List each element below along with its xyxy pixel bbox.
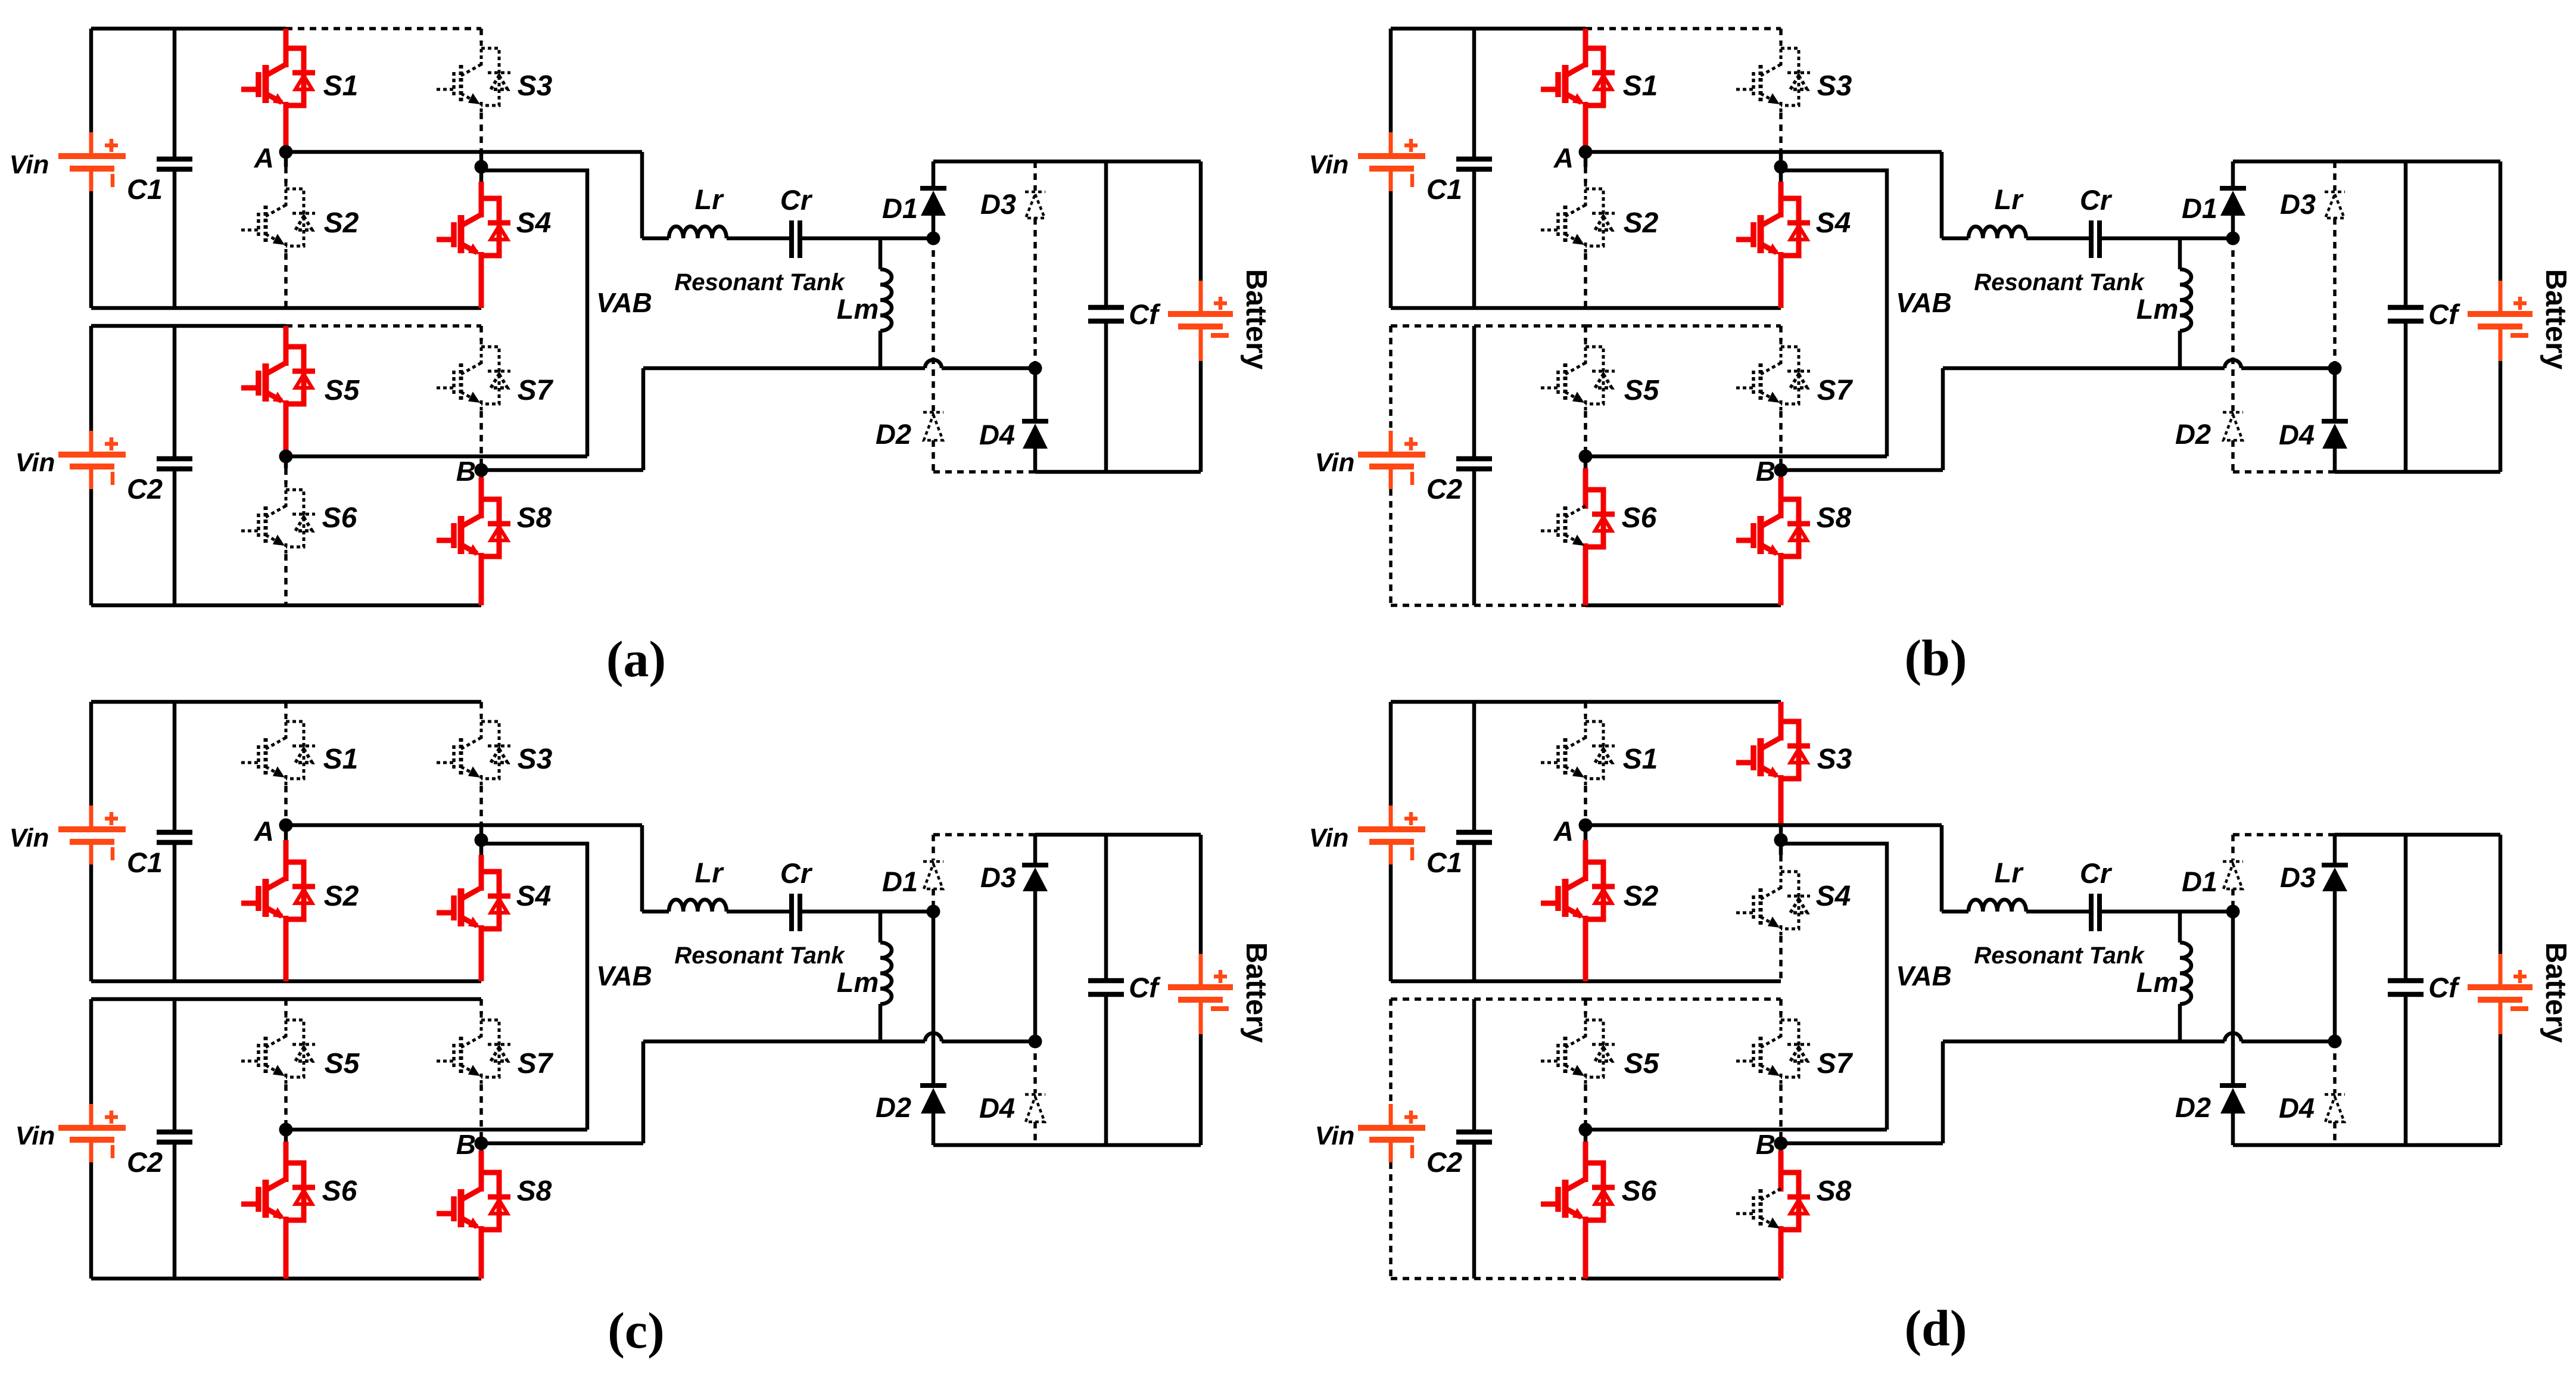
svg-text:S7: S7 [1817,1048,1854,1080]
wire top rail left segment (c) [91,700,286,704]
wire S4 to bottom rail (b) [1778,263,1784,308]
wire battery branch lower (b) [2499,361,2503,472]
wire C2 branch upper (c) [173,999,177,1132]
transistor S7 (IGBT switch) (d) [1780,1014,1783,1039]
svg-text:S2: S2 [324,207,359,239]
node D1-D2 midpoint (a) [927,232,940,245]
transistor S2 (IGBT switch) (b) [1584,183,1587,208]
wire Cf branch lower (d) [2404,994,2408,1145]
svg-text:Lm: Lm [837,966,879,998]
node A (c) [279,819,293,832]
capacitor Cr (b) [2089,220,2094,258]
svg-text:Vin: Vin [1315,448,1355,477]
wire S1 to node A (d) [1584,786,1587,825]
wire hop over D2 branch (a) [925,360,942,368]
svg-text:Resonant Tank: Resonant Tank [674,269,845,296]
wire S8 upper lead (a) [479,477,484,493]
wire mid node to VAB rail (d) [1586,1128,1887,1132]
svg-text:D2: D2 [2175,1091,2211,1123]
wire rectifier top rail left (a) [933,160,1035,164]
transistor S4 (IGBT switch) (c) [479,866,484,891]
wire S8 to bottom rail (b) [1778,564,1784,605]
wire Lr to Cr (a) [727,237,790,241]
svg-text:C2: C2 [1426,1146,1462,1178]
wire S6 to bottom rail (a) [284,554,288,605]
battery Vin upper (c) [89,805,94,829]
wire top rail right segment (d) [1586,700,1781,704]
node A (d) [1579,819,1593,832]
svg-text:Vin: Vin [1309,823,1349,853]
capacitor C2 (d) [1456,1130,1492,1135]
wire S2 upper lead (c) [284,840,289,856]
wire C2 branch upper (a) [173,326,177,459]
wire S1 drop (b) [1583,29,1588,42]
svg-text:S8: S8 [517,1175,552,1207]
wire node B to tank (horizontal) (d) [1781,1142,1943,1146]
svg-text:D4: D4 [2279,419,2315,450]
inductor Lm (b) [2180,269,2191,331]
wire mid node stub down (d) [1584,1130,1588,1142]
node D3-D4 midpoint (a) [1029,362,1042,375]
svg-text:S6: S6 [322,1175,357,1207]
svg-text:S8: S8 [517,502,552,534]
wire C1 branch upper (b) [1472,29,1477,159]
wire S3 to junction (b) [1779,113,1783,152]
wire mid node to VAB rail (a) [286,455,587,459]
wire tank bottom line left (b) [1943,366,2225,371]
wire lower top rail right segment (d) [1586,997,1781,1001]
wire node A stub down (c) [284,825,288,840]
transistor S1 (IGBT switch) (c) [285,716,288,741]
wire node A to tank (horizontal) (c) [286,823,642,828]
transistor S5 (IGBT switch) (d) [1584,1014,1587,1039]
svg-text:B: B [456,1129,476,1160]
transistor S5 (IGBT switch) (a) [284,341,289,366]
svg-text:D1: D1 [2182,192,2217,224]
svg-text:VAB: VAB [1896,960,1952,991]
wire top rail left segment (d) [1391,700,1586,704]
diode D1 (a) [932,161,936,188]
wire node B to tank (horizontal) (b) [1781,468,1943,472]
wire lower top rail left segment (b) [1391,324,1586,328]
battery Vin lower (b) [1389,431,1393,455]
diode D3 (b) [2333,161,2337,191]
wire battery branch upper (b) [2499,161,2503,281]
wire battery branch lower (a) [1199,361,1203,472]
wire junction to VAB rail (c) [481,844,587,1130]
inductor Lm (a) [880,269,892,331]
transistor S1 (IGBT switch) (d) [1584,716,1587,741]
svg-text:B: B [1756,456,1776,487]
wire tank top line to Lr (c) [642,910,669,914]
wire junction to VAB rail (b) [1781,170,1887,456]
wire S3-S4 junction stub (b) [1779,152,1783,182]
wire S7 to node B (c) [479,1084,483,1143]
wire node A to tank (step down) (d) [1940,825,1944,912]
wire S4 to bottom rail (c) [479,936,484,981]
wire top rail right segment (a) [286,27,481,30]
battery output Battery (a) [1199,281,1203,314]
wire S5 drop (d) [1584,999,1587,1014]
wire S4 upper lead (d) [1779,855,1783,866]
svg-text:D4: D4 [979,1092,1015,1124]
wire node B to tank (horizontal) (c) [481,1142,643,1146]
wire S6 upper lead (c) [284,1142,289,1157]
wire Lr to Cr (c) [727,910,790,914]
diode D2 (d) [2231,912,2235,1086]
battery Vin upper (b) [1389,132,1393,156]
svg-text:VAB: VAB [596,960,652,991]
wire S2 to bottom rail (b) [1584,253,1587,308]
node D1-D2 midpoint (d) [2226,905,2240,919]
node S5-S6 midpoint (a) [279,450,293,464]
wire top rail left segment (b) [1391,27,1586,31]
wire Lm upper lead (a) [879,238,883,269]
node S5-S6 midpoint (b) [1579,450,1593,464]
svg-text:Cr: Cr [780,184,813,216]
wire battery branch upper (a) [1199,161,1203,281]
diode D4 (c) [1033,1041,1037,1093]
svg-text:S2: S2 [324,881,359,912]
transistor S3 (IGBT switch) (d) [1778,716,1784,741]
svg-text:S4: S4 [1816,881,1851,912]
svg-text:S7: S7 [1817,375,1854,406]
wire S3-S4 junction stub (d) [1779,825,1783,855]
wire top rail right segment (c) [286,700,481,704]
svg-text:B: B [456,456,476,487]
wire S6 to bottom rail (d) [1583,1227,1588,1279]
wire S1 drop (a) [284,29,289,42]
svg-text:Battery: Battery [2540,269,2572,370]
wire rectifier bottom rail right (b) [2335,470,2500,474]
wire lower left rail (below Vin) (c) [89,1162,94,1279]
transistor S3 (IGBT switch) (c) [480,716,483,741]
wire rectifier top rail right (d) [2335,833,2500,837]
wire S1 drop (d) [1584,702,1587,716]
svg-text:Vin: Vin [15,1121,55,1150]
svg-text:C1: C1 [127,847,163,878]
wire rectifier top rail left (d) [2233,833,2335,836]
wire lower left rail (below Vin) (d) [1389,1162,1393,1279]
svg-text:D3: D3 [980,861,1016,893]
transistor S8 (IGBT switch) (d) [1778,1167,1784,1192]
wire S2 to bottom rail (c) [284,926,289,981]
svg-text:C1: C1 [1426,173,1462,205]
battery output Battery (b) [2499,281,2503,314]
inductor Lr (c) [669,900,727,912]
wire tank bottom line left (a) [643,366,925,371]
wire S6 upper lead (a) [284,468,288,484]
battery Vin lower (c) [89,1104,94,1128]
wire lower top rail right segment (c) [286,997,481,1002]
wire tank bottom line right (d) [2241,1040,2335,1044]
wire node A stub down (d) [1584,825,1588,840]
wire S5 to mid node (c) [284,1084,288,1130]
wire node B to tank (step up) (c) [641,1041,646,1143]
wire node A to tank (step down) (c) [640,825,644,912]
wire C1 branch lower (a) [173,169,177,308]
diode D1 (c) [932,835,935,860]
wire mid node to VAB rail (c) [286,1128,587,1132]
wire lower top rail left segment (a) [91,324,286,328]
capacitor Cf (b) [2388,305,2424,310]
transistor S7 (IGBT switch) (b) [1780,341,1783,366]
svg-text:S8: S8 [1817,502,1852,534]
svg-text:Resonant Tank: Resonant Tank [1974,269,2145,296]
node B (d) [1774,1137,1788,1150]
wire S4 upper lead (c) [479,855,484,866]
node A (a) [279,145,293,159]
wire left rail upper (below Vin) (c) [89,864,94,981]
svg-text:Cf: Cf [2428,972,2460,1003]
svg-text:S4: S4 [516,207,552,239]
wire S5 to mid node (a) [284,411,289,456]
transistor S4 (IGBT switch) (d) [1780,866,1783,891]
wire bottom rail upper bridge (b) [1391,306,1781,310]
wire left rail upper (above Vin) (b) [1389,29,1393,132]
svg-text:S6: S6 [1622,502,1657,534]
wire S7 drop (c) [479,999,483,1014]
wire rectifier top rail left (b) [2233,160,2335,164]
battery output Battery (d) [2499,954,2503,987]
node S3-S4 junction (a) [475,160,488,174]
wire node B stub down (a) [479,470,484,477]
battery Vin upper (a) [89,132,94,156]
capacitor Cr (c) [789,894,794,931]
wire node A to tank (horizontal) (b) [1586,150,1942,154]
wire tank top line to Lr (b) [1942,237,1968,241]
transistor S6 (IGBT switch) (b) [1583,484,1588,509]
svg-text:A: A [1553,816,1574,847]
svg-text:C2: C2 [1426,473,1462,505]
wire rectifier bottom rail right (c) [1035,1143,1201,1147]
svg-text:Vin: Vin [1309,150,1349,179]
svg-text:D1: D1 [882,866,918,897]
transistor S1 (IGBT switch) (a) [284,42,289,67]
wire top rail right segment (b) [1586,27,1781,30]
wire Cr to rectifier (a) [801,237,933,241]
wire rectifier top rail right (b) [2335,160,2500,164]
wire S2 upper lead (a) [284,167,288,183]
transistor S7 (IGBT switch) (a) [480,341,483,366]
svg-text:S6: S6 [1622,1175,1657,1207]
node B (a) [475,464,488,477]
diode D1 (d) [2231,835,2235,860]
svg-text:S6: S6 [322,502,357,534]
svg-text:D3: D3 [2280,861,2316,893]
wire top rail left segment (a) [91,27,286,31]
wire C2 branch lower (c) [173,1142,177,1279]
wire S8 upper lead (b) [1778,477,1784,493]
wire S8 upper lead (d) [1778,1150,1784,1167]
svg-text:Lm: Lm [2136,293,2179,325]
wire node A to tank (horizontal) (a) [286,150,642,154]
wire S2 upper lead (b) [1584,167,1587,183]
svg-text:D3: D3 [980,188,1016,220]
wire S6 to bottom rail (b) [1583,554,1588,605]
wire tank top line to Lr (a) [642,237,669,241]
inductor Lr (d) [1968,900,2026,912]
svg-text:Battery: Battery [2540,943,2572,1043]
svg-text:(d): (d) [1904,1299,1967,1357]
wire S2 to bottom rail (a) [284,253,288,308]
wire S2 to bottom rail (d) [1583,926,1588,981]
svg-text:A: A [1553,142,1574,173]
svg-text:Cr: Cr [2080,184,2113,216]
svg-text:D1: D1 [882,192,918,224]
wire hop over D2 branch (c) [925,1033,942,1041]
wire S8 to bottom rail (a) [479,564,484,605]
wire C2 branch lower (d) [1472,1142,1477,1279]
wire lower top rail left segment (c) [91,997,286,1002]
wire C2 branch lower (b) [1472,469,1477,605]
diode D3 (a) [1033,161,1037,191]
transistor S4 (IGBT switch) (a) [479,192,484,217]
svg-text:S8: S8 [1817,1175,1852,1207]
wire battery branch upper (c) [1199,835,1203,954]
node S3-S4 junction (c) [475,833,488,847]
diode D4 (b) [2333,368,2337,421]
capacitor C2 (c) [157,1130,192,1135]
wire node A stub down (a) [284,152,288,167]
wire Lm upper lead (b) [2178,238,2182,269]
svg-text:S2: S2 [1624,207,1659,239]
wire left rail upper (above Vin) (d) [1389,702,1393,805]
wire node B stub down (d) [1779,1143,1783,1150]
svg-text:S5: S5 [1624,1048,1660,1080]
svg-text:S7: S7 [518,375,554,406]
wire mid node stub down (b) [1584,456,1588,468]
wire rectifier bottom rail left (c) [933,1143,1035,1147]
wire left rail upper (above Vin) (c) [89,702,94,805]
wire lower left rail (above Vin) (d) [1389,999,1393,1104]
transistor S6 (IGBT switch) (c) [284,1157,289,1182]
diode D2 (c) [932,912,936,1086]
transistor S2 (IGBT switch) (a) [285,183,288,208]
svg-text:S1: S1 [323,744,359,775]
transistor S8 (IGBT switch) (a) [479,493,484,518]
wire Cf branch upper (c) [1104,835,1108,981]
transistor S8 (IGBT switch) (c) [479,1167,484,1192]
wire C2 branch upper (b) [1472,326,1477,459]
inductor Lr (b) [1968,226,2026,238]
wire S3 drop (b) [1779,29,1783,42]
wire S1 to node A (a) [284,113,289,152]
wire S3-S4 junction stub (c) [479,825,484,855]
wire S1 to node A (c) [284,786,288,825]
wire rectifier bottom rail left (a) [933,470,1035,474]
svg-text:S3: S3 [1817,744,1852,775]
svg-text:Lm: Lm [837,293,879,325]
svg-text:S2: S2 [1624,881,1659,912]
svg-text:VAB: VAB [596,287,652,318]
svg-text:Battery: Battery [1240,943,1272,1043]
svg-text:VAB: VAB [1896,287,1952,318]
wire lower top rail right segment (b) [1586,324,1781,328]
capacitor C1 (c) [157,830,192,835]
wire lower top rail left segment (d) [1391,997,1586,1001]
node D3-D4 midpoint (b) [2328,362,2342,375]
wire C1 branch upper (a) [173,29,177,159]
wire bottom rail lower bridge right (b) [1586,604,1781,608]
svg-text:D4: D4 [2279,1092,2315,1124]
wire node A to tank (step down) (b) [1940,152,1944,238]
capacitor Cr (d) [2089,894,2094,931]
wire S6 upper lead (d) [1583,1142,1588,1157]
wire S6 upper lead (b) [1583,468,1588,484]
wire S4 upper lead (a) [479,182,484,192]
node S3-S4 junction (d) [1774,833,1788,847]
wire S5 to mid node (d) [1584,1084,1587,1130]
wire bottom rail lower bridge right (d) [1586,1277,1781,1281]
wire tank top line to Lr (d) [1942,910,1968,914]
transistor S5 (IGBT switch) (b) [1584,341,1587,366]
wire S7 to node B (d) [1779,1084,1783,1143]
svg-text:S3: S3 [518,744,553,775]
transistor S2 (IGBT switch) (d) [1583,856,1588,881]
wire C1 branch lower (b) [1472,169,1477,308]
transistor S2 (IGBT switch) (c) [284,856,289,881]
wire S7 to node B (b) [1779,411,1783,470]
wire tank bottom line right (b) [2241,366,2335,371]
wire bottom rail lower bridge left (a) [91,604,286,608]
diode D1 (b) [2231,161,2235,188]
svg-text:C1: C1 [1426,847,1462,878]
wire rectifier bottom rail right (a) [1035,470,1201,474]
wire node A to tank (horizontal) (d) [1586,823,1942,828]
wire S3 to junction (d) [1778,786,1784,825]
wire tank bottom line right (a) [942,366,1035,371]
wire battery branch lower (c) [1199,1034,1203,1145]
svg-text:C2: C2 [127,473,163,505]
svg-text:(b): (b) [1904,629,1967,686]
wire tank bottom line left (d) [1943,1040,2225,1044]
svg-text:Cf: Cf [1129,298,1161,330]
svg-text:S4: S4 [1816,207,1851,239]
wire bottom rail lower bridge left (c) [91,1277,286,1281]
wire S7 drop (a) [479,326,483,341]
svg-text:D1: D1 [2182,866,2217,897]
wire S8 to bottom rail (c) [479,1237,484,1279]
node D1-D2 midpoint (b) [2226,232,2240,245]
wire lower left rail (above Vin) (b) [1389,326,1393,431]
wire Cf branch upper (a) [1104,161,1108,307]
wire battery branch upper (d) [2499,835,2503,954]
wire Cf branch upper (d) [2404,835,2408,981]
inductor Lm (c) [880,943,892,1004]
svg-text:Cf: Cf [2428,298,2460,330]
capacitor Cr (a) [789,220,794,258]
wire lower left rail (below Vin) (a) [89,489,94,605]
wire left rail upper (below Vin) (b) [1389,191,1393,308]
wire Lr to Cr (d) [2026,910,2090,914]
diode D3 (c) [1033,835,1038,865]
capacitor Cf (d) [2388,978,2424,984]
svg-text:Cr: Cr [2080,857,2113,889]
node B (b) [1774,464,1788,477]
wire Cr to rectifier (c) [801,910,933,914]
svg-text:B: B [1756,1129,1776,1160]
wire junction to VAB rail (a) [481,170,587,456]
wire S6 to bottom rail (c) [284,1227,289,1279]
capacitor C1 (b) [1456,157,1492,162]
wire S8 upper lead (c) [479,1150,484,1167]
capacitor C1 (a) [157,157,192,162]
svg-text:Battery: Battery [1240,269,1272,370]
wire node B stub down (b) [1779,470,1783,477]
node B (c) [475,1137,488,1150]
svg-text:S1: S1 [323,70,359,102]
